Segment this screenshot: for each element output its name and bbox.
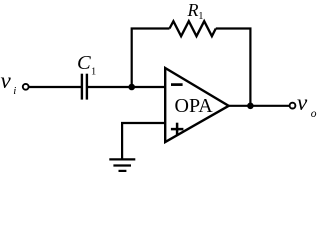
svg-text:C: C: [77, 52, 91, 74]
svg-text:o: o: [311, 108, 317, 120]
resistor R1: [170, 21, 216, 36]
svg-text:R: R: [187, 0, 199, 20]
svg-text:v: v: [297, 90, 308, 115]
capacitor C1: [82, 74, 87, 100]
ground: [109, 159, 135, 171]
inverting input minus sign: [171, 83, 183, 86]
output terminal v_o: [290, 103, 296, 109]
svg-text:1: 1: [198, 11, 203, 22]
wire node A up to top rail: [132, 29, 170, 88]
node A junction: [128, 84, 135, 91]
svg-text:1: 1: [91, 67, 96, 78]
node B junction: [247, 103, 254, 110]
wire R1 to output node: [216, 29, 251, 106]
wire C1 to inverting input: [88, 86, 166, 88]
svg-text:OPA: OPA: [175, 95, 214, 117]
svg-text:i: i: [13, 85, 16, 97]
wire output: [228, 105, 290, 107]
wire input to C1: [29, 86, 81, 88]
input terminal v_i: [23, 84, 29, 90]
non-inverting input plus sign: [171, 123, 184, 136]
op-amp U1 triangle: [165, 68, 229, 142]
wire non-inverting input to ground: [122, 123, 165, 159]
svg-text:v: v: [1, 68, 12, 93]
